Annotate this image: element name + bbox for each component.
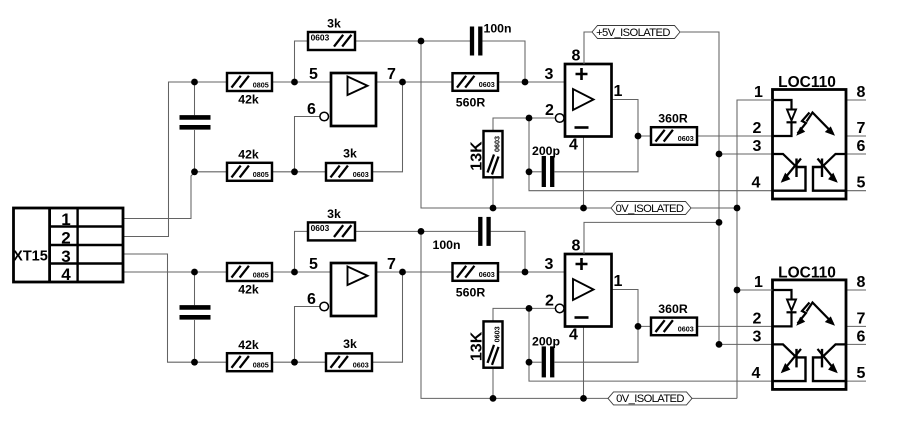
wire: 0V rail (b) <box>421 231 608 398</box>
svg-text:0V_ISOLATED: 0V_ISOLATED <box>616 203 684 215</box>
svg-text:13K: 13K <box>468 141 485 171</box>
resistor 13K (0603) vertical B <box>468 321 502 367</box>
resistor 560R (0603) A <box>453 73 499 109</box>
svg-text:0603: 0603 <box>678 134 694 143</box>
wire: 3k feedback upper / 100n row (b) <box>295 231 479 272</box>
svg-text:XT15: XT15 <box>13 249 48 265</box>
op-amp U2A (pins 1,2,3,4,8) <box>545 48 623 154</box>
resistor 3k lower feedback (0603) B <box>326 337 372 371</box>
resistor 560R (0603) B <box>453 263 499 299</box>
capacitor 200p B <box>532 334 560 377</box>
wire: 0V rail (a) <box>421 41 611 208</box>
svg-text:42k: 42k <box>238 93 259 107</box>
capacitor input filter CB1 <box>180 272 211 362</box>
wire: lower 42k row through 3k to pin7 (b) <box>195 272 403 362</box>
svg-text:360R: 360R <box>658 112 688 126</box>
optocoupler LOC110 A <box>752 74 866 199</box>
wire: LOC110 pin 4 to node 2 / 200p junction (b) <box>529 362 773 381</box>
wire: node2/200p to left plate (a) <box>529 171 542 173</box>
svg-text:7: 7 <box>387 256 396 273</box>
svg-text:4: 4 <box>61 265 71 284</box>
svg-text:3: 3 <box>545 66 554 83</box>
wire: 42k input row to op-amp pin 5 (a) <box>195 81 332 83</box>
svg-text:0805: 0805 <box>253 170 269 179</box>
wire: bottom op-amp pin 8 to +5V vertical rail <box>584 222 719 254</box>
wire: pin 6 bubble to lower node (a) <box>295 117 320 172</box>
svg-text:0603: 0603 <box>311 33 330 43</box>
LOC110 A right phototransistor <box>822 154 846 167</box>
svg-text:200p: 200p <box>532 334 560 348</box>
svg-text:200p: 200p <box>532 144 560 158</box>
net flag 0V_ISOLATED B <box>608 392 692 405</box>
resistor 360R (0603) B <box>651 302 697 335</box>
svg-text:8: 8 <box>857 274 866 291</box>
LOC110 A left phototransistor <box>773 154 797 167</box>
svg-text:4: 4 <box>569 327 578 344</box>
svg-text:0603: 0603 <box>353 170 369 179</box>
resistor 3k upper feedback (0603) A <box>308 17 355 51</box>
LOC110 A LED <box>773 100 792 110</box>
svg-text:2: 2 <box>545 292 554 309</box>
svg-text:1: 1 <box>614 83 623 100</box>
svg-text:100n: 100n <box>433 238 461 252</box>
svg-text:0805: 0805 <box>253 270 269 279</box>
svg-text:7: 7 <box>857 120 866 137</box>
junction dots channel A <box>191 38 740 212</box>
wire: LOC110 B pin 1 stub <box>737 289 773 291</box>
svg-text:3: 3 <box>753 138 762 155</box>
wire: op-amp U2 pin 4 to 0V rail (a) <box>583 137 585 209</box>
wire: node2/200p to left plate (b) <box>529 361 542 363</box>
svg-text:2: 2 <box>753 310 762 327</box>
svg-text:6: 6 <box>857 328 866 345</box>
wire: LOC110 pin 3 to +5V vertical (b) <box>719 343 773 345</box>
resistor 13K (0603) vertical A <box>468 131 502 177</box>
svg-text:LOC110: LOC110 <box>778 264 836 281</box>
wire: +5V flag to +5V vertical rail <box>680 32 719 345</box>
wire: op-amp pin 7 row to op-amp U2 pin 3 (a) <box>376 81 565 83</box>
wire: LOC110 A pin 1 down the 0V vertical to bottom rail <box>737 100 773 398</box>
svg-text:360R: 360R <box>658 302 688 316</box>
svg-text:2: 2 <box>753 120 762 137</box>
wire: op-amp U2 pin 1 output (b) <box>612 290 639 327</box>
wire: 13K bottom to 0V rail (b) <box>492 367 494 398</box>
resistor 3k lower feedback (0603) A <box>326 147 372 181</box>
svg-text:7: 7 <box>857 310 866 327</box>
wire: node 2 row to 13K (b) <box>493 308 555 321</box>
svg-text:5: 5 <box>309 66 318 83</box>
svg-text:0603: 0603 <box>479 270 495 279</box>
resistor 3k upper feedback (0603) B <box>308 207 355 241</box>
XT15 body <box>14 208 124 282</box>
svg-text:8: 8 <box>572 48 581 65</box>
svg-text:2: 2 <box>545 102 554 119</box>
capacitor 200p A <box>532 144 560 187</box>
svg-text:4: 4 <box>569 137 578 154</box>
wire: 42k input row to op-amp pin 5 (b) <box>195 271 332 273</box>
svg-text:560R: 560R <box>456 96 486 110</box>
wire: op-amp U2 pin 4 to 0V rail (b) <box>583 327 585 399</box>
wire: 100n right to node 3 (a) <box>482 41 525 82</box>
resistor 360R (0603) A <box>651 112 697 145</box>
junction dots channel B <box>191 219 740 402</box>
wire: pin 6 bubble to lower node (b) <box>295 307 320 363</box>
svg-text:3k: 3k <box>327 17 341 31</box>
wire: 200p right plate to output node (a) <box>555 136 639 172</box>
wire: 200p branch vertical (a) <box>528 118 530 172</box>
LOC110 B left phototransistor <box>773 344 797 357</box>
svg-text:5: 5 <box>857 175 866 192</box>
resistor 42k upper (0805) A <box>227 73 272 107</box>
op-amp U1A (pins 5,6,7) <box>307 66 396 126</box>
svg-text:8: 8 <box>857 84 866 101</box>
wire: 200p right plate to output node (b) <box>555 326 639 362</box>
svg-text:13K: 13K <box>468 331 485 361</box>
svg-text:560R: 560R <box>456 286 486 300</box>
svg-text:42k: 42k <box>238 148 259 162</box>
svg-text:1: 1 <box>614 273 623 290</box>
op-amp U1B (pins 5,6,7) <box>307 256 396 316</box>
svg-text:2: 2 <box>61 229 70 248</box>
wire: 3k feedback upper / 100n row (a) <box>295 41 471 82</box>
svg-text:6: 6 <box>307 291 316 308</box>
capacitor 100n A <box>472 22 512 56</box>
svg-text:100n: 100n <box>484 22 512 36</box>
wire: 0V rail right of flag (b) <box>692 397 737 399</box>
svg-text:0603: 0603 <box>311 223 330 233</box>
wire: node 2 row to 13K (a) <box>493 118 555 131</box>
connector XT15 <box>13 82 194 362</box>
svg-text:0603: 0603 <box>493 326 502 342</box>
svg-text:5: 5 <box>857 365 866 382</box>
svg-text:3: 3 <box>753 328 762 345</box>
wire: LOC110 pin 4 to node 2 / 200p junction (a) <box>529 172 773 191</box>
wire: op-amp pin 7 row to op-amp U2 pin 3 (b) <box>376 271 565 273</box>
power flag +5V_ISOLATED <box>592 26 680 40</box>
capacitor 100n B <box>433 217 489 252</box>
resistor 42k upper (0805) B <box>227 263 272 297</box>
svg-text:1: 1 <box>61 210 70 229</box>
svg-text:0603: 0603 <box>678 325 694 334</box>
wire: XT15 pin 2 to top channel upper 42k <box>123 82 195 237</box>
wire: LOC110 pin 3 to +5V vertical (a) <box>719 153 773 155</box>
optocoupler LOC110 B <box>752 264 866 389</box>
wire: 360R to LOC110 pin 2 (b) <box>638 325 773 327</box>
LOC110 B light arrow right <box>807 303 834 324</box>
svg-text:0603: 0603 <box>493 136 502 152</box>
svg-text:0603: 0603 <box>353 360 369 369</box>
wire: 100n right to node 3 (b) <box>491 231 525 272</box>
capacitor input filter CA1 <box>180 82 211 172</box>
svg-text:8: 8 <box>572 238 581 255</box>
wire: XT15 pin 1 to top channel lower 42k <box>123 172 195 218</box>
LOC110 A light arrow right <box>807 113 834 134</box>
svg-text:6: 6 <box>857 138 866 155</box>
svg-text:42k: 42k <box>238 338 259 352</box>
wire: op-amp pin 8 to +5V_ISOLATED flag <box>584 32 592 64</box>
svg-text:1: 1 <box>754 274 763 291</box>
wire: XT15 pin 3 to bottom channel lower 42k <box>123 254 195 362</box>
wire: lower 42k row through 3k to pin7 (a) <box>195 82 403 172</box>
svg-text:+5V_ISOLATED: +5V_ISOLATED <box>596 27 670 39</box>
wire: 13K bottom to 0V rail (a) <box>492 177 494 208</box>
LOC110 B right phototransistor <box>822 344 846 357</box>
svg-text:1: 1 <box>754 84 763 101</box>
svg-text:3: 3 <box>61 247 70 266</box>
LOC110 A light arrow left <box>798 113 810 134</box>
svg-text:0805: 0805 <box>253 361 269 370</box>
wire: XT15 pin 4 to bottom channel upper 42k <box>123 271 195 273</box>
svg-text:LOC110: LOC110 <box>778 74 836 91</box>
svg-text:4: 4 <box>752 365 761 382</box>
wire: op-amp U2 pin 1 output (a) <box>612 100 639 137</box>
svg-text:7: 7 <box>387 66 396 83</box>
resistor 42k lower (0805) B <box>227 338 272 371</box>
svg-text:4: 4 <box>752 175 761 192</box>
wire: LOC110 right side pin stubs (a) <box>846 99 866 101</box>
LOC110 B light arrow left <box>798 303 810 324</box>
resistor 42k lower (0805) A <box>227 148 272 181</box>
svg-text:3k: 3k <box>327 207 341 221</box>
svg-text:3: 3 <box>545 256 554 273</box>
wire: LOC110 right side pin stubs (b) <box>846 289 866 291</box>
svg-text:5: 5 <box>309 256 318 273</box>
svg-text:0805: 0805 <box>253 80 269 89</box>
svg-text:3k: 3k <box>343 147 357 161</box>
wire: 0V rail right of flag (a) <box>691 207 737 209</box>
net flag 0V_ISOLATED A <box>611 202 691 215</box>
wire: 360R to LOC110 pin 2 (a) <box>638 135 773 137</box>
svg-text:0V_ISOLATED: 0V_ISOLATED <box>616 393 684 405</box>
svg-text:42k: 42k <box>238 283 259 297</box>
svg-text:3k: 3k <box>343 337 357 351</box>
op-amp U2B (pins 1,2,3,4,8) <box>545 238 623 344</box>
svg-text:6: 6 <box>307 101 316 118</box>
wire: 200p branch vertical (b) <box>528 308 530 362</box>
LOC110 B LED <box>773 290 792 300</box>
svg-text:0603: 0603 <box>479 80 495 89</box>
